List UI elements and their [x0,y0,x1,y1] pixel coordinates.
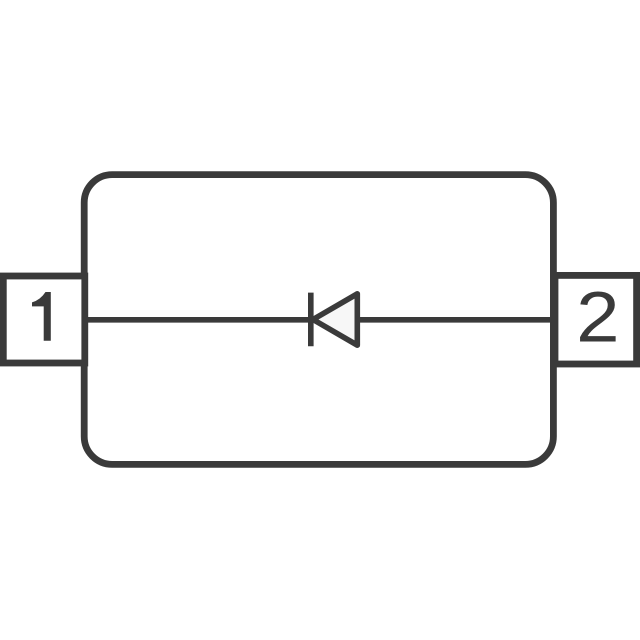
pin 2 pad [555,275,637,364]
wire: anode segment from pin 1 to diode [85,317,311,323]
package body outline [84,175,553,465]
diode D1 cathode bar [308,293,314,347]
pin 1 label [32,292,51,341]
pin 1 pad [3,276,85,363]
diode D1 triangle [313,294,357,345]
svg-text:2: 2 [576,277,619,357]
wire: cathode segment from diode to pin 2 [357,317,555,323]
